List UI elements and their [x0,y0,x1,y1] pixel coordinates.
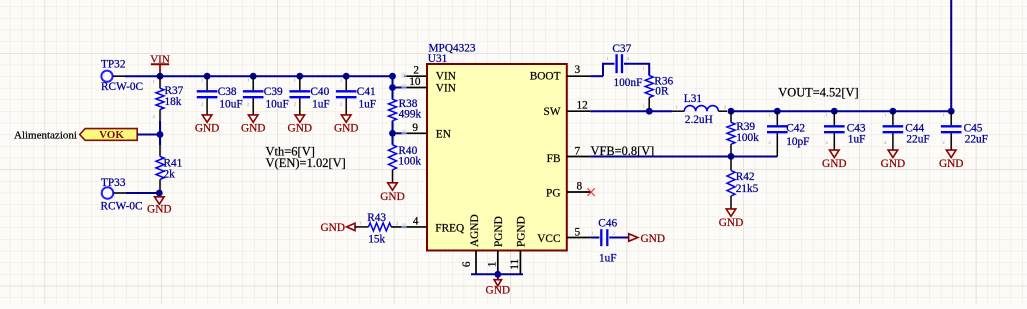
svg-text:RCW-0C: RCW-0C [101,201,143,213]
wire bottom GND bus [471,273,523,275]
node C40 top junction [296,73,303,80]
svg-text:C39: C39 [264,86,283,98]
svg-text:FREQ: FREQ [435,222,464,234]
resistor R38 499k [389,98,422,121]
wire VOK node to R41 [159,135,161,146]
svg-text:BOOT: BOOT [530,71,561,83]
svg-text:GND: GND [334,123,358,135]
svg-text:SW: SW [544,106,561,118]
svg-text:1uF: 1uF [599,252,617,264]
svg-text:22uF: 22uF [906,133,929,145]
svg-text:R43: R43 [367,212,386,224]
svg-text:GND: GND [147,203,171,215]
capacitor C37 100nF [606,43,642,89]
svg-text:VOUT=4.52[V]: VOUT=4.52[V] [778,86,858,100]
svg-text:1: 1 [487,261,499,267]
svg-text:GND: GND [241,123,265,135]
ground below C45 [946,150,956,157]
svg-text:2: 2 [413,65,419,77]
pin 4 FREQ [391,216,464,235]
svg-text:11: 11 [509,259,521,270]
wire BOOT to C37 [603,64,615,76]
pin 3 BOOT [530,64,603,83]
svg-text:9: 9 [412,122,418,134]
ground right of C46 [629,233,665,245]
wire C46 to GND port [609,237,628,239]
ground below C38 [202,115,212,122]
wire R38 to EN node [392,121,394,134]
wire TP33 to node [126,192,159,194]
svg-text:21k5: 21k5 [736,183,759,195]
svg-text:15k: 15k [368,234,385,246]
wire VOK to node [137,134,160,136]
node C39 top junction [250,73,257,80]
ground below IC [486,274,510,296]
svg-text:R42: R42 [736,171,755,183]
svg-text:V(EN)=1.02[V]: V(EN)=1.02[V] [266,156,346,170]
node FB/R39/R42 junction [728,153,735,160]
svg-text:8: 8 [577,181,583,193]
ground below R40 [388,183,398,190]
svg-text:VOK: VOK [99,129,124,141]
capacitor C45 22uF [941,111,988,150]
svg-text:RCW-0C: RCW-0C [101,81,143,93]
wire C37 to R36 [624,64,649,76]
svg-text:10uF: 10uF [219,98,242,110]
node bottom GND junction [494,271,501,278]
resistor R42 21k5 [727,156,759,209]
wire VOUT rail [731,110,951,112]
svg-text:22uF: 22uF [965,133,988,145]
node C38 top junction [204,73,211,80]
node VIN/R37 junction [157,73,164,80]
svg-text:GND: GND [719,217,743,229]
resistor R39 100k [727,111,759,156]
pin 9 EN [393,122,451,141]
node pin10 junction [389,84,396,91]
capacitor C44 22uF [883,111,930,150]
svg-text:GND: GND [641,233,665,245]
svg-text:Alimentazioni: Alimentazioni [14,129,77,141]
svg-text:C38: C38 [218,86,237,98]
svg-text:VCC: VCC [537,233,560,245]
svg-text:PGND: PGND [493,216,505,247]
svg-text:499k: 499k [399,109,422,121]
svg-text:4: 4 [413,216,419,228]
resistor R40 100k [389,145,422,183]
ground below C40 [295,115,305,122]
pin 11 PGND [509,216,528,274]
wire VIN rail [125,75,393,77]
capacitor C43 1uF [824,111,866,150]
op-amp/regulator U31 MPQ4323 body [427,42,567,250]
svg-text:3: 3 [575,64,581,76]
node VOK junction [157,131,164,138]
pin 6 AGND [461,214,481,274]
node C42 top junction [774,108,781,115]
wire R37 to VOK node [159,121,161,135]
capacitor C38 10uF [197,76,243,115]
svg-text:GND: GND [288,123,312,135]
pin 1 PGND [487,216,506,274]
no-ERC cross on PG [587,188,594,196]
capacitor C39 10uF [243,76,289,115]
svg-text:1uF: 1uF [359,98,377,110]
pin 8 PG [546,181,591,200]
svg-text:VIN: VIN [436,71,456,83]
resistor R43 15k [355,212,399,246]
svg-text:GND: GND [939,158,963,170]
svg-text:U31: U31 [428,53,447,65]
node SW/R36 junction [646,108,653,115]
node EN junction [389,130,396,137]
svg-text:7: 7 [575,145,581,157]
svg-text:TP32: TP32 [101,59,126,71]
svg-text:2k: 2k [164,169,176,181]
svg-text:6: 6 [461,261,473,267]
svg-text:C37: C37 [612,43,631,55]
svg-text:2.2uH: 2.2uH [685,114,713,126]
inductor L31 2.2uH [672,93,727,126]
pin 2 VIN [404,65,456,83]
svg-text:1uF: 1uF [848,133,866,145]
resistor R37 18k [153,76,184,121]
node L31/R39 junction [728,108,735,115]
svg-text:GND: GND [822,158,846,170]
svg-text:GND: GND [881,158,905,170]
node C44 top junction [890,108,897,115]
capacitor C46 1uF [591,218,617,265]
svg-text:12: 12 [577,100,589,112]
svg-text:R39: R39 [736,121,755,133]
ground below C41 [341,115,351,122]
ground left of R43 [321,222,355,234]
pin 12 SW [544,100,591,119]
capacitor C42 10pF [767,108,809,157]
node rail corner junction (pin2) [389,73,396,80]
wire EN node to R40 [392,133,394,145]
svg-text:C40: C40 [310,86,329,98]
svg-text:100k: 100k [398,156,421,168]
svg-text:1uF: 1uF [312,98,330,110]
svg-text:L31: L31 [684,93,702,105]
capacitor C41 1uF [336,76,376,115]
wire VOUT up to edge [950,0,952,111]
capacitor C40 1uF [290,76,330,115]
svg-text:PG: PG [546,187,560,199]
svg-text:GND: GND [380,191,404,203]
svg-text:C42: C42 [786,122,805,134]
resistor R36 0R [642,66,673,111]
pin 5 VCC [537,227,590,246]
svg-text:18k: 18k [165,96,182,108]
ground below C39 [248,115,258,122]
svg-text:FB: FB [547,153,561,165]
svg-text:10: 10 [409,76,421,88]
pin 10 VIN [393,76,456,95]
svg-text:PGND: PGND [516,216,528,247]
testpoint TP33 [101,177,143,213]
svg-text:C41: C41 [357,86,376,98]
wire FB net [590,156,777,158]
svg-text:R37: R37 [165,85,184,97]
svg-text:5: 5 [575,227,581,239]
svg-text:10uF: 10uF [266,98,289,110]
power port VIN [150,54,170,77]
wire rail down segment [392,76,394,99]
ground below C43 [830,150,840,157]
resistor R41 2k [156,145,182,193]
svg-text:10pF: 10pF [786,136,809,148]
svg-text:GND: GND [321,222,345,234]
pin end marks [402,73,407,79]
svg-text:AGND: AGND [469,214,481,247]
ground below TP33 node [147,193,171,215]
wire SW [590,110,672,112]
svg-text:VIN: VIN [150,54,170,66]
svg-text:GND: GND [195,123,219,135]
node TP33/R41/GND junction [156,190,163,197]
testpoint TP32 [101,59,143,94]
svg-text:EN: EN [436,129,451,141]
node C41 top junction [343,73,350,80]
svg-text:VIN: VIN [436,83,456,95]
svg-text:GND: GND [486,285,510,297]
svg-text:0R: 0R [655,86,669,98]
ground below R42 [726,209,736,216]
svg-text:TP33: TP33 [101,177,126,189]
pin 7 FB [547,145,591,165]
node C45 top junction [948,108,955,115]
wire VCC to C46 [590,237,599,239]
svg-text:100nF: 100nF [614,77,643,89]
svg-text:100k: 100k [736,132,759,144]
node C43 top junction [831,108,838,115]
svg-text:C46: C46 [598,218,617,230]
port VOK [80,129,138,142]
ground below C44 [888,150,898,157]
